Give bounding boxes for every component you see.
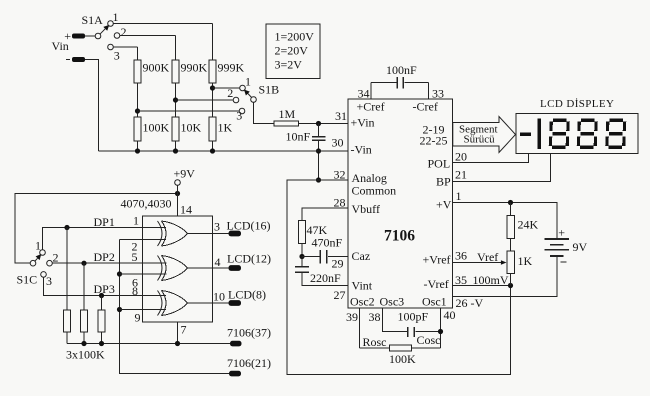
wire S1B pole to 1M xyxy=(254,102,275,123)
svg-text:Osc3: Osc3 xyxy=(380,295,405,309)
potentiometer 1K xyxy=(507,251,533,274)
wire 1M to pin31 xyxy=(299,123,349,125)
node 100K bottom xyxy=(135,148,140,153)
+9V supply rail xyxy=(15,191,180,263)
range legend box xyxy=(266,24,320,79)
pin 14 stub xyxy=(178,194,193,217)
pin 34 +Cref xyxy=(357,87,385,114)
node 900K-100K tap xyxy=(135,108,239,113)
LCD digit 8 (second) xyxy=(577,118,598,148)
svg-text:3: 3 xyxy=(46,274,52,288)
svg-text:990K: 990K xyxy=(181,61,208,75)
svg-text:28: 28 xyxy=(334,195,346,209)
svg-text:Vbuff: Vbuff xyxy=(352,202,380,216)
LCD display box xyxy=(516,98,638,154)
switch S1B contact 1 xyxy=(240,75,251,91)
capacitor 100pF (Cosc) xyxy=(398,310,441,348)
svg-text:1: 1 xyxy=(133,214,139,228)
XOR gate G1 xyxy=(158,221,188,246)
svg-text:10nF: 10nF xyxy=(286,130,311,144)
svg-text:Vint: Vint xyxy=(352,279,373,293)
svg-text:+: + xyxy=(558,226,565,240)
pin 7 stub xyxy=(178,322,187,344)
svg-text:100K: 100K xyxy=(389,352,416,366)
node 990K-10K tap xyxy=(173,97,233,102)
wire -Vin bus xyxy=(99,150,349,152)
svg-text:38: 38 xyxy=(369,310,381,324)
segment driver arrow xyxy=(453,117,516,153)
LCD digit 1 xyxy=(537,119,541,150)
wire BP feedback (pins 2,6,9) xyxy=(120,240,230,374)
svg-text:Sürücü: Sürücü xyxy=(464,134,496,146)
pin 38 Osc3 stub xyxy=(369,295,407,332)
wire S1A contact2 to 990K top xyxy=(120,35,176,37)
svg-text:LCD(16): LCD(16) xyxy=(227,219,271,233)
svg-text:+Vin: +Vin xyxy=(351,116,375,130)
svg-text:LCD DİSPLEY: LCD DİSPLEY xyxy=(540,98,614,110)
wire 7106(37) line xyxy=(67,326,271,347)
pin 39 Osc2 stub xyxy=(346,295,375,349)
node pin1/24K junction xyxy=(508,200,513,205)
capacitor 100nF (Cref) xyxy=(371,63,429,99)
svg-text:S1A: S1A xyxy=(82,13,104,27)
svg-text:7106: 7106 xyxy=(384,228,415,245)
svg-text:30: 30 xyxy=(332,136,344,150)
node 999K-1K tap xyxy=(210,85,239,90)
svg-text:36: 36 xyxy=(455,248,467,262)
svg-text:1K: 1K xyxy=(518,254,533,268)
svg-text:14: 14 xyxy=(180,203,192,217)
svg-text:3: 3 xyxy=(114,49,120,63)
svg-text:100mV: 100mV xyxy=(473,273,509,287)
svg-text:26 -V: 26 -V xyxy=(456,296,484,310)
terminal +9V xyxy=(174,167,196,194)
svg-text:3: 3 xyxy=(236,109,242,123)
pin 33 -Cref xyxy=(413,87,445,114)
switch S1C contact 2 xyxy=(47,251,59,267)
svg-text:100K: 100K xyxy=(143,121,170,135)
pin 31 +Vin xyxy=(335,109,375,130)
wire 999K-1K column xyxy=(212,24,214,152)
svg-text:2: 2 xyxy=(121,25,127,39)
svg-text:2: 2 xyxy=(53,251,59,265)
svg-text:1=200V: 1=200V xyxy=(275,30,315,44)
svg-text:-Cref: -Cref xyxy=(413,100,438,114)
svg-text:1K: 1K xyxy=(218,121,233,135)
label S1A xyxy=(82,13,104,27)
svg-text:8: 8 xyxy=(132,284,138,298)
svg-text:470nF: 470nF xyxy=(312,236,343,250)
svg-text:Common: Common xyxy=(352,184,397,198)
label pin1 pin5 pin8 xyxy=(132,214,140,299)
svg-text:900K: 900K xyxy=(143,61,170,75)
pin 29 Caz xyxy=(332,249,371,271)
wire gate2 output LCD(12) xyxy=(188,252,272,271)
terminal Vin- xyxy=(66,57,85,62)
svg-text:7: 7 xyxy=(181,323,187,337)
node 10K bottom xyxy=(173,148,178,153)
pin 36 Vref wiper arrow xyxy=(423,248,507,266)
svg-text:DP1: DP1 xyxy=(94,215,115,229)
wire pin32 Analog Common loop xyxy=(287,180,511,375)
svg-text:POL: POL xyxy=(428,157,451,171)
wire gate1 output LCD(16) xyxy=(188,219,271,237)
svg-text:1M: 1M xyxy=(279,107,296,121)
resistor 47K xyxy=(299,221,328,257)
label Vin plus xyxy=(64,29,71,43)
terminal Vin+ xyxy=(72,34,95,39)
pin 21 BP wire xyxy=(436,154,551,189)
resistor 100K DP3 xyxy=(66,293,105,362)
svg-text:4: 4 xyxy=(215,255,221,269)
svg-text:32: 32 xyxy=(334,168,346,182)
LCD minus sign xyxy=(520,132,531,135)
switch S1A contact 3 xyxy=(108,44,120,62)
pin 27 Vint xyxy=(334,279,373,303)
wire 900K-100K column xyxy=(137,47,139,151)
svg-text:9: 9 xyxy=(135,311,141,325)
switch S1C pole and lever xyxy=(17,254,42,287)
svg-text:Vref: Vref xyxy=(477,250,498,264)
resistor 1M xyxy=(274,107,299,126)
resistor 1K xyxy=(209,117,233,141)
svg-text:-Vin: -Vin xyxy=(351,143,372,157)
wire 990K-10K column xyxy=(175,36,177,152)
resistor 100K DP1 xyxy=(64,225,71,344)
svg-text:3: 3 xyxy=(214,220,220,234)
switch S1A contact 1 xyxy=(108,10,119,26)
switch S1A lever arrow xyxy=(100,25,109,34)
switch S1B contact 2 xyxy=(227,86,239,103)
svg-text:7106(37): 7106(37) xyxy=(227,326,271,340)
svg-text:Vin: Vin xyxy=(52,39,69,53)
resistor 100K xyxy=(134,117,170,141)
svg-text:S1C: S1C xyxy=(17,273,38,287)
svg-text:33: 33 xyxy=(432,87,444,101)
svg-text:LCD(12): LCD(12) xyxy=(227,252,271,266)
svg-text:1: 1 xyxy=(456,189,462,203)
wire gate3 output LCD(8) xyxy=(188,288,267,306)
resistor 100K DP2 xyxy=(81,261,88,344)
svg-text:220nF: 220nF xyxy=(310,271,341,285)
svg-text:3x100K: 3x100K xyxy=(66,348,105,362)
svg-text:21: 21 xyxy=(455,168,467,182)
svg-text:1: 1 xyxy=(245,75,251,89)
svg-text:LCD(8): LCD(8) xyxy=(228,288,266,302)
wire DP1 xyxy=(43,215,167,250)
switch S1A pole xyxy=(95,33,101,39)
svg-text:29: 29 xyxy=(332,257,344,271)
svg-text:+9V: +9V xyxy=(174,167,196,181)
svg-text:27: 27 xyxy=(334,288,346,302)
pin 26 -V wire xyxy=(453,257,558,311)
svg-text:22-25: 22-25 xyxy=(420,134,448,148)
svg-text:35: 35 xyxy=(455,273,467,287)
IC U2 4070 body xyxy=(121,197,213,323)
svg-text:4070,4030: 4070,4030 xyxy=(121,197,172,211)
svg-text:BP: BP xyxy=(436,175,451,189)
svg-text:Caz: Caz xyxy=(352,249,371,263)
svg-text:DP2: DP2 xyxy=(94,250,115,264)
resistor 900K xyxy=(134,60,170,83)
svg-text:1: 1 xyxy=(35,239,41,253)
svg-text:+Vref: +Vref xyxy=(423,253,451,267)
svg-text:10K: 10K xyxy=(181,121,202,135)
svg-text:20: 20 xyxy=(455,150,467,164)
LCD digit 8 (first) xyxy=(549,118,570,148)
label Vin xyxy=(52,39,69,53)
wire pin6 xyxy=(117,271,167,289)
svg-text:Osc2: Osc2 xyxy=(350,295,375,309)
wire pin2 xyxy=(120,240,167,254)
svg-text:Cosc: Cosc xyxy=(417,333,441,347)
label S1B xyxy=(259,83,280,97)
resistor 100K Rosc xyxy=(360,335,441,366)
svg-text:100nF: 100nF xyxy=(386,63,417,77)
svg-text:10: 10 xyxy=(213,290,225,304)
svg-text:-Vref: -Vref xyxy=(424,277,449,291)
svg-text:DP3: DP3 xyxy=(94,282,115,296)
switch S1C contact 1 xyxy=(35,239,45,256)
svg-text:999K: 999K xyxy=(218,61,245,75)
node 10nF/-Vin junction xyxy=(316,148,321,153)
svg-text:+Cref: +Cref xyxy=(357,100,385,114)
pin 1 +V wire xyxy=(436,189,557,239)
svg-text:+V: +V xyxy=(436,197,452,211)
svg-text:1: 1 xyxy=(113,10,119,24)
svg-text:34: 34 xyxy=(358,87,370,101)
pin 28 Vbuff wire xyxy=(302,195,380,220)
LCD digit 8 (third) xyxy=(605,118,626,148)
svg-text:2=20V: 2=20V xyxy=(275,44,309,58)
wire S1A contact1 to 999K top xyxy=(113,23,212,25)
svg-text:3=2V: 3=2V xyxy=(275,58,303,72)
wire DP3 xyxy=(44,277,167,296)
pin 32 Analog Common xyxy=(334,168,397,198)
svg-text:31: 31 xyxy=(335,109,347,123)
resistor 999K xyxy=(209,60,245,83)
resistor 24K xyxy=(507,203,539,252)
wire Vin- to bus xyxy=(85,60,99,152)
switch S1B contact 3 xyxy=(236,108,245,122)
node 10nF/ACommon junction xyxy=(316,177,321,182)
pin 40 Osc1 stub xyxy=(422,295,456,349)
svg-text:39: 39 xyxy=(346,310,358,324)
wire S1A contact3 to 900K top xyxy=(113,46,137,48)
terminal 7106(21) xyxy=(227,356,271,376)
pin 30 -Vin xyxy=(332,136,372,157)
pin 35 100mV wire xyxy=(424,273,514,291)
switch S1B pole and lever xyxy=(244,90,256,103)
switch S1A contact 2 xyxy=(114,25,126,39)
wire pin9 xyxy=(117,307,166,325)
node 1K bottom xyxy=(210,148,215,153)
resistor 10K xyxy=(172,117,202,141)
IC U1 7106 body xyxy=(348,99,453,308)
svg-text:100pF: 100pF xyxy=(398,310,429,324)
capacitor 10nF xyxy=(286,124,326,181)
battery 9V xyxy=(545,226,588,263)
resistor 990K xyxy=(172,60,208,83)
svg-text:S1B: S1B xyxy=(259,83,280,97)
XOR gate G3 xyxy=(158,291,188,316)
XOR gate G2 xyxy=(158,256,188,281)
pin 20 POL wire xyxy=(428,150,529,171)
svg-text:40: 40 xyxy=(444,308,456,322)
svg-text:Osc1: Osc1 xyxy=(422,295,447,309)
label 2-19 22-25 segment pins xyxy=(420,123,448,148)
svg-text:24K: 24K xyxy=(518,218,539,232)
switch S1C contact 3 xyxy=(41,272,52,288)
svg-text:Rosc: Rosc xyxy=(363,335,387,349)
svg-text:7106(21): 7106(21) xyxy=(227,356,271,370)
capacitor 470nF (Caz) xyxy=(302,236,348,264)
node 47K/Caz junction xyxy=(299,254,304,259)
svg-text:9V: 9V xyxy=(573,240,588,254)
node 1M/10nF junction xyxy=(316,121,321,126)
svg-text:2: 2 xyxy=(227,86,233,100)
svg-text:5: 5 xyxy=(132,250,138,264)
capacitor 220nF (Vint) xyxy=(295,257,348,286)
wire DP2 xyxy=(52,250,166,264)
